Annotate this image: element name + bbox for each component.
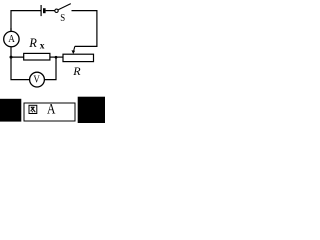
svg-text:x: x xyxy=(40,42,45,52)
svg-text:S: S xyxy=(60,13,65,24)
svg-text:R: R xyxy=(28,36,37,50)
svg-text:R: R xyxy=(72,64,81,78)
svg-text:V: V xyxy=(33,74,40,86)
svg-text:A: A xyxy=(8,33,15,45)
svg-text:A: A xyxy=(47,102,56,118)
